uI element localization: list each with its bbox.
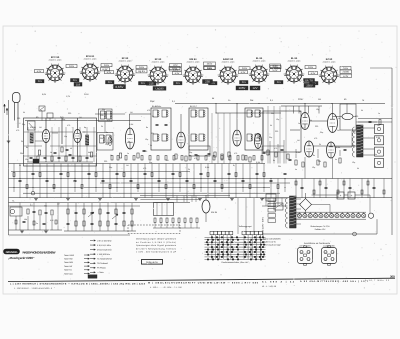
svg-text:0,8V: 0,8V: [42, 93, 47, 96]
svg-text:1M: 1M: [377, 124, 380, 127]
resistor R1: [38, 150, 40, 155]
svg-text:Lautsprecher: Lautsprecher: [323, 245, 335, 248]
svg-text:470: 470: [234, 152, 237, 155]
svg-text:1M: 1M: [297, 139, 300, 142]
wire bus drop to coil: [346, 104, 348, 114]
svg-text:12p: 12p: [64, 135, 67, 138]
svg-text:25p: 25p: [360, 126, 363, 129]
wire: right margin vertical: [391, 68, 393, 235]
wire: bus 171: [11, 171, 190, 173]
svg-text:245V: 245V: [207, 63, 213, 66]
wire: bus 183: [100, 182, 290, 184]
svg-text:Tastenaggregat: Tastenaggregat: [238, 225, 252, 228]
svg-text:245V: 245V: [104, 64, 110, 67]
svg-text:TA Tonabnehmer: TA Tonabnehmer: [97, 258, 112, 261]
svg-text:1n: 1n: [378, 112, 380, 115]
svg-text:25p: 25p: [189, 151, 192, 154]
svg-text:0,5M: 0,5M: [205, 166, 210, 169]
wires EM84 area verticals: [176, 196, 178, 202]
wires V7 to output transformer: [314, 145, 357, 147]
speaker terminal strip: [375, 125, 384, 134]
resistor row above AGC bus: [111, 156, 113, 161]
connector plug P1 (A.F. coupler): [298, 248, 313, 264]
svg-text:30k: 30k: [100, 137, 103, 140]
svg-text:2k: 2k: [268, 153, 270, 156]
svg-text:5k: 5k: [23, 111, 25, 114]
svg-text:BI 460kHz: BI 460kHz: [152, 105, 161, 108]
svg-text:L | 1357 HEINRICH | STANDARDGE: L | 1357 HEINRICH | STANDARDGERÄTE — KAT…: [10, 283, 146, 286]
svg-text:25p: 25p: [149, 161, 152, 164]
svg-text:8n: 8n: [353, 144, 355, 147]
wire lower band bottom rail: [9, 234, 131, 236]
capacitor C5: [143, 149, 146, 151]
svg-text:L 150-300 kHz: L 150-300 kHz: [97, 253, 110, 256]
FM tuning capacitor C1: [28, 121, 36, 130]
socket voltage boxes near U9: [340, 70, 352, 73]
tube socket U5 EM 84 (bottom view): [185, 67, 201, 83]
ground at antenna: [7, 140, 11, 142]
svg-text:Taste TA: Taste TA: [64, 269, 72, 272]
svg-text:Ansicht v. unten: Ansicht v. unten: [323, 60, 336, 63]
GRUNDIG logo badge: [4, 249, 20, 254]
svg-text:+: +: [340, 194, 342, 198]
svg-text:25p: 25p: [102, 108, 105, 111]
svg-text:6,3V: 6,3V: [37, 70, 42, 73]
svg-text:1,9V: 1,9V: [173, 68, 178, 71]
voltage label boxes U9: [340, 67, 351, 70]
svg-text:1k: 1k: [50, 151, 52, 154]
svg-text:215: 215: [176, 82, 181, 85]
svg-text:215: 215: [38, 80, 43, 83]
svg-text:Netzteil 220V~ 50Hz: Netzteil 220V~ 50Hz: [262, 217, 265, 237]
svg-text:Soffitten 12V: Soffitten 12V: [315, 228, 327, 231]
wires inside FM box: [45, 118, 47, 130]
svg-text:30k: 30k: [271, 112, 274, 115]
svg-text:30k: 30k: [278, 165, 281, 168]
svg-text:245V: 245V: [69, 65, 75, 68]
FM coil L1 (hatched): [30, 133, 33, 143]
wire: right top bus: [281, 105, 322, 107]
svg-text:0,5M: 0,5M: [256, 161, 261, 164]
svg-text:470: 470: [107, 119, 110, 122]
svg-text:1 · 1357 0570417 · . 17530: 1 · 1357 0570417 · . 17530 140 41174320 …: [14, 287, 52, 290]
svg-text:9p: 9p: [84, 126, 86, 129]
svg-text:Ansicht v. unten: Ansicht v. unten: [119, 59, 132, 62]
wire: heater bus: [9, 178, 393, 180]
capacitor C2: [54, 151, 57, 153]
wire: bus 193: [23, 192, 280, 194]
IF can T3: [245, 108, 263, 150]
filter capacitor C50a: [337, 192, 344, 199]
svg-text:230: 230: [205, 80, 210, 84]
svg-text:1M: 1M: [130, 111, 133, 114]
svg-text:Uk 7V: Uk 7V: [305, 79, 313, 83]
svg-text:6,3V: 6,3V: [311, 72, 316, 75]
FM tuner shield box: [24, 118, 97, 166]
switch matrix rows: [205, 236, 266, 238]
svg-text:87V: 87V: [173, 64, 178, 67]
svg-text:Taste MW: Taste MW: [64, 261, 73, 264]
socket voltage boxes near U6: [236, 86, 248, 90]
svg-text:215: 215: [149, 82, 154, 85]
wire: B+ top bus: [175, 103, 385, 105]
tube V1a ECC85: [42, 130, 50, 143]
svg-text:5k: 5k: [19, 164, 21, 167]
svg-text:4n: 4n: [335, 158, 337, 161]
tube socket U9 EZ 80 (bottom view): [321, 67, 337, 83]
svg-text:Ansicht v. unten: Ansicht v. unten: [152, 60, 165, 63]
svg-text:245V: 245V: [308, 66, 314, 69]
svg-text:216: 216: [76, 83, 81, 86]
svg-text:2k: 2k: [228, 158, 230, 161]
svg-text:250V: 250V: [272, 65, 278, 68]
svg-text:205V: 205V: [239, 86, 246, 90]
svg-text:470: 470: [143, 167, 146, 170]
switch matrix header A: [210, 231, 214, 234]
svg-text:TB Tonband: TB Tonband: [97, 262, 108, 265]
svg-text:0,5M: 0,5M: [336, 146, 341, 149]
tube V7a EL84: [305, 141, 314, 157]
svg-text:Gleichspannungen 10kΩ/V gemess: Gleichspannungen 10kΩ/V gemessen: [136, 238, 176, 241]
capacitor C3: [69, 153, 72, 155]
switch matrix column rods: [211, 235, 213, 260]
svg-text:215V: 215V: [84, 93, 89, 96]
svg-text:470: 470: [16, 129, 19, 132]
svg-text:12p: 12p: [145, 138, 148, 141]
volume potentiometer box: [154, 203, 174, 216]
svg-text:4n: 4n: [375, 153, 377, 156]
potentiometer arrow 1: [88, 212, 94, 217]
svg-text:2k: 2k: [152, 115, 154, 118]
svg-text:Taste UKW: Taste UKW: [64, 254, 74, 257]
AM mixer coil box L4: [97, 133, 113, 151]
svg-text:1M: 1M: [166, 159, 169, 162]
svg-text:2x300: 2x300: [343, 71, 350, 74]
svg-text:1M: 1M: [79, 116, 82, 119]
IF can T1 (AM/FM): [151, 108, 171, 150]
small parts row inside FM box: [30, 156, 33, 158]
svg-text:1M: 1M: [337, 129, 340, 132]
voltage selector: [274, 203, 283, 210]
socket voltage boxes near U2: [101, 68, 110, 71]
tube socket U1 ECC 85 (bottom view): [47, 65, 63, 81]
wire: bus 187: [9, 187, 271, 189]
svg-text:12p: 12p: [276, 118, 279, 121]
socket voltage boxes near U7: [270, 64, 281, 67]
svg-text:10k: 10k: [24, 218, 27, 221]
voltage label boxes U5: [204, 67, 215, 70]
svg-text:Skalenlampen 7V 0,3A: Skalenlampen 7V 0,3A: [310, 225, 330, 228]
output transformer secondary leads: [363, 127, 375, 129]
svg-text:K 5,9-18,1 MHz: K 5,9-18,1 MHz: [97, 244, 111, 247]
svg-text:RADIO-PHONO-SUPER 3043 W: RADIO-PHONO-SUPER 3043 W: [23, 250, 56, 254]
svg-text:6,3V: 6,3V: [343, 75, 348, 78]
svg-text:470: 470: [314, 137, 317, 140]
verticals upper band mid-right: [211, 113, 213, 164]
page border (scan edge): [3, 26, 397, 294]
tube socket U4 EF 89 (bottom view): [150, 67, 166, 83]
AF detector area wires: [261, 146, 263, 164]
svg-text:220: 220: [104, 160, 107, 163]
svg-text:Taste Aus: Taste Aus: [64, 272, 73, 275]
svg-text:215: 215: [242, 81, 247, 84]
svg-text:25p: 25p: [62, 118, 65, 121]
wire under lamps: [262, 233, 377, 235]
tube V6a EABC80: [301, 113, 310, 130]
svg-text:6,3V: 6,3V: [103, 68, 108, 71]
svg-text:8n: 8n: [273, 159, 275, 162]
svg-text:1n: 1n: [338, 117, 340, 120]
svg-text:Sicherung 0,5A träge: Sicherung 0,5A träge: [263, 244, 281, 247]
svg-text:2k: 2k: [101, 125, 103, 128]
svg-text:12V: 12V: [252, 86, 257, 90]
svg-text:220: 220: [144, 150, 147, 153]
svg-text:220: 220: [17, 117, 20, 120]
wire: lower band rail 2: [9, 205, 141, 207]
capacitor C6: [195, 153, 198, 155]
tube V7b EL84: [327, 142, 336, 158]
svg-text:1M: 1M: [126, 164, 129, 167]
svg-text:2k: 2k: [359, 138, 361, 141]
potentiometer arrow 2: [112, 214, 118, 219]
svg-text:1n: 1n: [127, 152, 129, 155]
svg-text:12p: 12p: [316, 108, 319, 111]
svg-text:Ansicht v. unten: Ansicht v. unten: [253, 59, 266, 62]
svg-text:470: 470: [194, 157, 197, 160]
svg-text:0,6V: 0,6V: [207, 67, 212, 70]
output stage resistors: [295, 160, 297, 165]
wire: bus segment 2: [216, 112, 281, 114]
svg-text:8n: 8n: [106, 131, 108, 134]
svg-text:4n: 4n: [299, 110, 301, 113]
svg-text:bei 220 V Netzspannung, Tolera: bei 220 V Netzspannung, Toleranz: [136, 247, 176, 250]
components on mesh: [13, 173, 15, 177]
rectifier bridge: [300, 199, 312, 211]
wire: lower band rail 1: [9, 202, 191, 204]
svg-text:6,3V: 6,3V: [107, 71, 112, 74]
svg-text:5k: 5k: [357, 167, 359, 170]
svg-text:W | ABGLEICHVORSCHRIFT UKW-MW-: W | ABGLEICHVORSCHRIFT UKW-MW-LW-KW — 60…: [148, 281, 259, 284]
wire: AM antenna line: [25, 120, 141, 122]
mains contact stack: [268, 198, 276, 202]
PSU verticals: [265, 198, 267, 206]
svg-text:+: +: [351, 194, 353, 198]
ratio detector box: [189, 146, 210, 156]
output transformer primary bumps: [353, 127, 355, 132]
voltage label boxes U3: [136, 66, 147, 69]
socket voltage boxes near U5: [204, 62, 216, 65]
tube V6b EL84 driver: [328, 114, 338, 133]
svg-text:Anschlüsse an Geräteseite: Anschlüsse an Geräteseite: [304, 242, 331, 245]
svg-text:Ua240: Ua240: [155, 87, 163, 90]
left block parts: [27, 209, 29, 214]
svg-text:Ansicht v. unten: Ansicht v. unten: [49, 58, 62, 61]
svg-text:2k: 2k: [188, 168, 190, 171]
svg-text:40 · 4 · 1 421 98: 40 · 4 · 1 421 98: [262, 285, 276, 288]
svg-text:215: 215: [141, 82, 146, 85]
svg-text:5n: 5n: [36, 222, 38, 225]
pilot lamp symbol: [353, 232, 357, 236]
mid small parts: [214, 152, 216, 157]
tone control network verticals: [67, 203, 69, 231]
svg-text:30k: 30k: [318, 160, 321, 163]
dial lamp channel rails: [296, 211, 366, 213]
svg-text:Ansicht v. unten: Ansicht v. unten: [222, 60, 235, 63]
svg-text:1M: 1M: [318, 98, 321, 101]
svg-text:an Punkten 1,5-245 V (Pfeile): an Punkten 1,5-245 V (Pfeile): [136, 241, 176, 244]
svg-text:5,2V: 5,2V: [273, 69, 278, 72]
tuning indicator tube V8 EM84: [202, 200, 210, 213]
tube socket U2 ECH 81 (bottom view): [82, 64, 98, 80]
svg-text:0,25: 0,25: [50, 219, 54, 222]
svg-text:30k: 30k: [20, 152, 23, 155]
FM coil L2 (hatched): [86, 135, 89, 145]
mesh verticals lower main band: [13, 164, 15, 193]
FM box interior wires: [24, 131, 43, 133]
socket voltage boxes near U8: [304, 83, 315, 87]
svg-text:1M: 1M: [206, 154, 209, 157]
wires around V6: [304, 104, 306, 113]
connector plug P2 (Lautsprecher): [322, 248, 337, 264]
tube V2 ECH81: [125, 128, 134, 149]
tube socket U7 EL 84 (bottom view): [251, 66, 267, 82]
tube V5 demodulator: [254, 134, 261, 149]
tube V4 EF89 2nd IF: [233, 130, 241, 146]
highlighted note box: [142, 260, 163, 265]
antenna A1 dipole: [13, 93, 21, 103]
voltage label boxes U4: [169, 67, 180, 70]
voltage label boxes U2: [101, 64, 112, 67]
legend col2 dark box: [88, 275, 97, 279]
wire: bus 197.7: [9, 197, 393, 199]
resistor R2: [90, 152, 92, 157]
svg-text:8n: 8n: [26, 146, 28, 149]
svg-text:215: 215: [73, 79, 78, 82]
wire: left margin vertical: [8, 100, 10, 235]
svg-text:245V: 245V: [343, 67, 349, 70]
switch matrix contacts: [211, 237, 213, 238]
svg-text:3k: 3k: [88, 151, 90, 154]
svg-text:245V: 245V: [139, 66, 145, 69]
svg-text:4 · 150 4 · . . . . 43 · 15: 4 · 150 4 · . . . . 43 · 1504 · . 7 4 · …: [150, 286, 182, 289]
svg-text:Primär 110/125/220V: Primär 110/125/220V: [263, 238, 281, 241]
svg-text:± 10% . Alle Kondensatoren in: ± 10% . Alle Kondensatoren in pF: [136, 251, 177, 254]
antenna arrows: [4, 104, 6, 113]
junction dots mesh: [13, 186, 16, 189]
svg-text:Taste LW: Taste LW: [64, 265, 72, 268]
resistor R4: [137, 153, 139, 158]
output transformer T4 core: [357, 125, 364, 157]
resistor row under pot box: [154, 218, 156, 223]
svg-text:„Musikgerät 6099“: „Musikgerät 6099“: [7, 256, 35, 260]
parts right of coil box: [356, 121, 392, 123]
svg-text:470: 470: [147, 109, 150, 112]
svg-text:0,65V: 0,65V: [116, 85, 124, 89]
svg-text:1n: 1n: [298, 122, 300, 125]
svg-text:12p: 12p: [312, 166, 315, 169]
voltage label boxes U6: [239, 67, 250, 70]
svg-text:6,3V: 6,3V: [241, 71, 246, 74]
svg-text:Drucktastenschalter „Klav.-Ar: Drucktastenschalter „Klav.-Art“: [221, 261, 248, 264]
footer ruler line (slight scan skew): [8, 278, 395, 281]
wires far right: [358, 118, 392, 120]
mains input wires: [262, 197, 288, 199]
socket voltage boxes near U3: [136, 70, 147, 73]
svg-text:6,3V: 6,3V: [175, 72, 180, 75]
fuse lamp on bus: [31, 191, 35, 195]
voltage label boxes U1: [66, 65, 77, 68]
svg-text:25p: 25p: [109, 166, 112, 169]
voltage label boxes U7: [270, 66, 281, 69]
svg-text:Ansicht v. unten: Ansicht v. unten: [187, 60, 200, 63]
svg-text:— Netz: — Netz: [97, 271, 104, 274]
resistor R3: [119, 153, 121, 158]
svg-text:25p: 25p: [320, 131, 323, 134]
svg-text:215: 215: [277, 81, 282, 84]
verticals from right top bus: [293, 106, 295, 114]
scan speckle noise: [253, 31, 256, 34]
svg-text:5k: 5k: [310, 119, 312, 122]
svg-text:GRUNDIG: GRUNDIG: [6, 251, 18, 254]
svg-text:30k: 30k: [358, 150, 361, 153]
voltage label boxes U8: [305, 66, 316, 69]
svg-text:8n: 8n: [146, 126, 148, 129]
tube socket U8 EL 84 (bottom view): [286, 66, 302, 82]
svg-text:25p: 25p: [22, 123, 25, 126]
svg-text:M 510-1620 kHz: M 510-1620 kHz: [97, 248, 112, 251]
antenna trimmer C0b: [47, 113, 53, 118]
svg-text:U 87,5-100 MHz: U 87,5-100 MHz: [97, 239, 112, 242]
wire: AGC bus: [9, 163, 266, 165]
extra lamp right: [368, 213, 373, 218]
svg-text:220: 220: [315, 125, 318, 128]
power transformer T5 core: [290, 196, 297, 228]
svg-text:40: 40: [70, 147, 72, 150]
svg-text:12p: 12p: [105, 143, 108, 146]
svg-text:250V: 250V: [306, 84, 313, 87]
ground symbols on bus: [34, 198, 38, 200]
IF can T2: [189, 108, 208, 150]
svg-text:309: 309: [390, 275, 395, 279]
svg-text:470: 470: [354, 132, 357, 135]
dark component at FM box bottom: [33, 159, 39, 163]
wires filter caps: [312, 194, 338, 196]
verticals below lower band to mains: [237, 198, 239, 234]
svg-text:4n: 4n: [128, 140, 130, 143]
switch matrix header B: [242, 231, 246, 234]
svg-text:A.F. Coupler: A.F. Coupler: [299, 245, 310, 248]
svg-text:Ug 8,5: Ug 8,5: [138, 70, 146, 73]
antenna trimmer C0a: [39, 106, 45, 111]
svg-text:215: 215: [108, 81, 113, 84]
svg-text:12p: 12p: [25, 158, 28, 161]
svg-text:245V: 245V: [242, 67, 248, 70]
svg-text:2k: 2k: [21, 140, 23, 143]
svg-text:A 93 454-MITTELFREQ. 460 kHz |: A 93 454-MITTELFREQ. 460 kHz | 10,7: [300, 280, 369, 283]
left block extra verticals: [19, 203, 21, 231]
svg-text:Ph Phono: Ph Phono: [97, 267, 107, 270]
svg-text:0,5M: 0,5M: [129, 123, 134, 126]
svg-text:0,5M: 0,5M: [376, 136, 381, 139]
resistor R6: [185, 156, 187, 161]
wire V2 anode to IF can: [129, 114, 131, 129]
verticals right output area: [295, 179, 297, 198]
tube socket U6 EABC 80 (bottom view): [220, 67, 236, 83]
svg-text:220: 220: [68, 112, 71, 115]
svg-text:5k: 5k: [270, 124, 272, 127]
svg-text:2k: 2k: [319, 143, 321, 146]
detector section box: [263, 111, 301, 152]
